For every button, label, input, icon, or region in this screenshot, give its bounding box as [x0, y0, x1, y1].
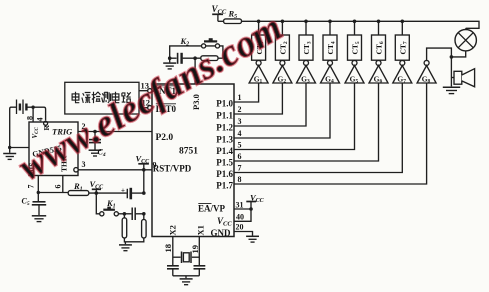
wire P1.2 line 3 [234, 83, 306, 126]
CT module CT2 [275, 21, 289, 60]
svg-text:G7: G7 [397, 75, 406, 85]
svg-text:P1.7: P1.7 [216, 181, 233, 191]
wire EA/VP pin 31 [234, 208, 251, 210]
wire K2 to P3.0 pin [194, 58, 196, 84]
wire 555 pin 6 [62, 176, 64, 193]
svg-text:1: 1 [238, 93, 242, 102]
pin label EA/VP [198, 204, 226, 214]
wire GND pin 20 [234, 232, 253, 236]
svg-text:G3: G3 [301, 75, 310, 85]
svg-text:G1: G1 [254, 75, 263, 85]
555 timer U1 [29, 122, 78, 176]
node K2 drop junction [193, 56, 197, 60]
node K2 left junction [168, 56, 172, 60]
svg-text:R5: R5 [228, 9, 238, 21]
svg-text:X2: X2 [168, 225, 178, 235]
fake hanzi 路 [122, 92, 131, 102]
resistor R1 [68, 191, 89, 196]
pin 3 output bubble of 555 [74, 168, 78, 172]
svg-text:31: 31 [236, 201, 244, 210]
node rail j3 [304, 20, 308, 24]
node Vcc/R1 junction [95, 191, 99, 195]
ground at C4 [89, 150, 102, 156]
svg-text:18: 18 [163, 244, 173, 253]
ground at battery [3, 148, 16, 160]
capacitor CX1 [167, 266, 179, 276]
lamp HL [451, 28, 476, 57]
node RST wire junction [142, 168, 146, 172]
wire RST vertical [143, 170, 145, 193]
wire pin 8 of 555 [32, 107, 34, 122]
inverter G2 [273, 60, 292, 84]
wire battery right to 555 pins 8 and 4 [26, 107, 45, 120]
resistor R2 [122, 214, 127, 238]
svg-text:+: + [121, 187, 125, 195]
wire Vcc pin 40 [234, 209, 251, 221]
svg-text:7: 7 [238, 164, 242, 173]
svg-text:P1.3: P1.3 [216, 135, 233, 145]
svg-text:40: 40 [236, 213, 244, 222]
svg-text:P1.4: P1.4 [216, 146, 233, 156]
pin label INT0 [156, 104, 177, 114]
pin 12 input bubble [148, 106, 152, 110]
CT module CT4 [323, 21, 337, 60]
svg-text:8751: 8751 [179, 147, 198, 157]
resistor R3 [142, 214, 147, 238]
node rail j5 [353, 20, 357, 24]
svg-text:5: 5 [238, 141, 242, 150]
svg-text:20: 20 [236, 223, 244, 232]
wire Vcc rail [242, 21, 480, 28]
capacitor C5 [32, 193, 46, 216]
wire pin 12 stub [139, 107, 148, 109]
svg-text:CT5: CT5 [351, 41, 361, 54]
wire P1.1 line 2 [234, 83, 282, 114]
capacitor C2 [132, 208, 135, 221]
CT module CT5 [348, 21, 362, 60]
fake hanzi 测 [102, 92, 111, 103]
node battery/pin8 junction [31, 106, 34, 109]
MCU 8751 U2 [152, 84, 234, 237]
node C5 junction [37, 191, 40, 194]
crystal Y1 [173, 252, 200, 264]
wire Vcc to R5 [218, 20, 224, 22]
inverter G7 [393, 60, 412, 84]
ground at C5 [32, 216, 46, 222]
svg-text:8: 8 [26, 116, 35, 120]
wire 555 pin 7 [37, 176, 39, 193]
wire pins 6,7 to R1 [38, 192, 68, 194]
Vcc symbol mid [90, 179, 105, 193]
svg-text:8: 8 [238, 175, 242, 184]
wire pin 13 stub [139, 90, 148, 92]
inverter G8 [417, 60, 436, 84]
svg-text:P1.6: P1.6 [216, 169, 233, 179]
ground at K2 [163, 58, 176, 69]
wire C3 to RST net [132, 192, 144, 194]
svg-text:CT7: CT7 [399, 41, 409, 54]
node EA/40 junction [249, 207, 253, 211]
wire resistor bottoms joined [124, 238, 143, 242]
ground at speaker [443, 87, 460, 93]
wire 555 pin 2 to P2.0 of 8751 [78, 131, 152, 133]
wire X1 pin 19 [198, 237, 200, 266]
battery GB [17, 100, 27, 115]
svg-text:P1.5: P1.5 [216, 158, 233, 168]
wire R1 to node [89, 192, 127, 194]
power detect box 电源检测电路 [65, 82, 139, 114]
wire 555 pin 3 to RST/VPD [78, 169, 152, 171]
ground at crystal [180, 276, 193, 285]
svg-text:C5: C5 [22, 197, 30, 208]
svg-text:CT6: CT6 [375, 41, 385, 54]
svg-text:P1.2: P1.2 [216, 123, 233, 133]
node rail j4 [328, 20, 332, 24]
node speaker junction [450, 55, 454, 59]
inverter G4 [321, 60, 340, 84]
wire battery left to ground node [10, 107, 17, 147]
svg-text:RST/VPD: RST/VPD [153, 164, 192, 174]
svg-text:CT3: CT3 [302, 41, 312, 54]
wire P1.0 line 1 [234, 83, 259, 102]
inverter G8 output wire [427, 48, 452, 86]
wire P1.3 line 4 [234, 83, 330, 138]
node rail j7 [401, 20, 405, 24]
wire P1.4 line 5 [234, 83, 355, 150]
Vcc symbol top [212, 4, 227, 21]
fake hanzi 源 [82, 93, 91, 103]
svg-text:CT4: CT4 [326, 41, 336, 54]
resistor R5 [224, 19, 242, 24]
svg-text:P1.1: P1.1 [216, 111, 233, 121]
node R3 top junction [142, 212, 146, 216]
resistor at K2 [201, 56, 218, 61]
Vcc symbol at RST [136, 154, 151, 170]
capacitor C4 [89, 132, 101, 150]
svg-text:R: R [42, 125, 51, 131]
pin label INT1 [156, 86, 177, 96]
svg-text:P2.0: P2.0 [156, 133, 174, 143]
svg-text:G6: G6 [374, 75, 383, 85]
fake hanzi 电 [112, 92, 119, 103]
ground at pin 20 [246, 236, 259, 242]
wire P1.7 line 8 [234, 83, 427, 184]
wire crystal caps common [173, 275, 200, 277]
fake hanzi 检 [92, 92, 101, 103]
pin 4 reset bubble [44, 121, 48, 125]
svg-text:K1: K1 [106, 198, 116, 210]
svg-text:P1.0: P1.0 [216, 99, 233, 109]
capacitor at K2 [170, 53, 201, 64]
svg-text:R1: R1 [73, 181, 83, 193]
fake hanzi 电 [72, 92, 79, 103]
svg-text:VCC: VCC [217, 216, 232, 228]
svg-text:G4: G4 [325, 75, 334, 85]
svg-text:3: 3 [238, 117, 242, 126]
Vcc symbol at EA [246, 193, 264, 210]
svg-text:X1: X1 [196, 225, 206, 235]
switch K2 top wire [170, 46, 223, 58]
wire K1 to C2 [118, 213, 131, 215]
node RST vertical junction [142, 191, 146, 195]
CT module CT7 [395, 21, 409, 60]
node ground/pin1 junction [8, 146, 11, 149]
wire P1.5 line 6 [234, 83, 379, 161]
CT module CT3 [299, 21, 313, 60]
svg-text:GND: GND [211, 228, 232, 238]
svg-text:G5: G5 [350, 75, 359, 85]
CT module CT6 [372, 21, 386, 60]
svg-text:K2: K2 [180, 36, 190, 48]
capacitor CX2 [194, 266, 206, 276]
svg-text:6: 6 [238, 152, 242, 161]
node rail j1 [257, 20, 261, 24]
wire GND pin 1 of 555 [10, 147, 29, 149]
wire P1.6 line 7 [234, 83, 402, 173]
svg-text:EA/VP: EA/VP [198, 204, 226, 214]
node rail j2 [281, 20, 285, 24]
capacitor C3 electrolytic [121, 187, 131, 200]
wire X2 pin 18 [172, 237, 174, 266]
wire resistor to right vertical [218, 57, 223, 59]
node rail j6 [377, 20, 381, 24]
speaker BL [451, 69, 474, 87]
svg-text:4: 4 [36, 118, 45, 122]
svg-text:2: 2 [238, 105, 242, 114]
inverter G1 [249, 60, 268, 84]
ground at reset resistors [119, 242, 132, 251]
node C4 junction [93, 130, 97, 134]
CT module CT1 [252, 21, 266, 60]
inverter G5 [345, 60, 364, 84]
pin 13 input bubble [148, 89, 152, 93]
svg-text:G2: G2 [278, 75, 287, 85]
switch K1 [100, 207, 119, 216]
switch K2 pushbutton [202, 38, 220, 48]
wire Vcc branch down to K1 [96, 193, 99, 214]
svg-text:6: 6 [54, 185, 63, 189]
node R2 top junction [123, 212, 127, 216]
inverter G6 [369, 60, 388, 84]
svg-text:4: 4 [238, 129, 242, 138]
svg-text:3: 3 [82, 160, 86, 169]
inverter G3 [297, 60, 316, 84]
svg-text:G8: G8 [422, 75, 431, 85]
wire C2 to RST vertical [136, 213, 144, 215]
